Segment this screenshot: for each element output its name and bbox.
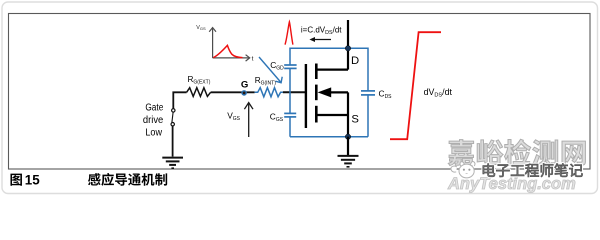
MOSFET Q1 body line with arrow: [318, 87, 348, 97]
inset graph red Vgs curve: [213, 45, 242, 57]
svg-text:Gate: Gate: [145, 102, 163, 113]
current direction arrow: [309, 37, 331, 42]
watermark 嘉峪检测网: [448, 139, 585, 165]
watermark 电子工程师笔记: [483, 163, 583, 177]
switch SW1: [171, 109, 175, 157]
Vgs arrow: [244, 103, 253, 137]
svg-text:i=C.dVDS/dt: i=C.dVDS/dt: [301, 25, 342, 35]
MOSFET Q1 drain stub: [317, 68, 348, 70]
node G dot: [241, 90, 247, 96]
blue package box left edge with cap gaps: [289, 48, 291, 137]
red di/dt spike: [285, 22, 293, 45]
svg-text:D: D: [351, 55, 359, 67]
blue package box right edge with cap gap: [367, 48, 369, 137]
red dv/dt ramp: [390, 32, 441, 139]
gate wire into MOSFET: [283, 91, 305, 93]
MOSFET Q1 source stub: [317, 114, 348, 116]
svg-text:t: t: [252, 56, 254, 63]
source side vertical: [347, 92, 349, 136]
source wire down: [347, 137, 349, 155]
svg-text:15: 15: [25, 173, 40, 188]
svg-text:S: S: [351, 113, 359, 125]
source junction node: [345, 134, 350, 139]
blue package box top edge: [290, 47, 368, 49]
wire from switch up to Rgext: [173, 92, 186, 108]
capacitor CGD: [284, 65, 296, 68]
MOSFET Q1 channel segments: [315, 64, 318, 123]
drain junction node: [345, 46, 350, 51]
ground GND2: [338, 156, 359, 167]
svg-text:drive: drive: [143, 115, 164, 126]
capacitor CDS: [361, 91, 375, 95]
ground GND1: [162, 158, 183, 169]
svg-text:VGS: VGS: [196, 25, 206, 31]
drain wire vertical: [347, 20, 349, 70]
blue pointer arrow to CGD: [259, 57, 282, 83]
svg-text:Low: Low: [145, 128, 162, 139]
blue package box bottom edge: [290, 136, 368, 138]
resistor RGINT: [255, 88, 283, 97]
caption title 感应导通机制: [88, 173, 167, 186]
wire Rgext to Rgint: [211, 91, 255, 93]
caption 图 15: [10, 174, 21, 186]
resistor RGEXT: [187, 88, 211, 97]
capacitor CGS: [284, 113, 296, 117]
MOSFET Q1 gate bar: [305, 64, 307, 128]
watermark logo face icon: [451, 162, 475, 178]
inset graph Vgs axis: [209, 28, 250, 62]
svg-text:G: G: [241, 80, 248, 91]
